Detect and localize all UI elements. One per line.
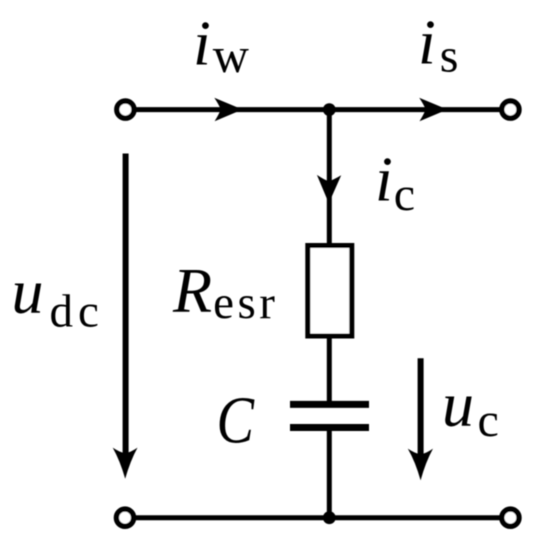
arrowhead current ic xyxy=(317,175,341,203)
voltage arrow uc head xyxy=(408,449,433,481)
arrowhead current is xyxy=(419,98,447,121)
wire capacitor to bottom xyxy=(327,430,332,518)
resistor Resr body xyxy=(308,246,352,337)
svg-text:C: C xyxy=(217,384,256,458)
node junction bottom xyxy=(323,511,336,524)
capacitor C top plate xyxy=(290,401,369,408)
svg-text:uc: uc xyxy=(442,369,499,447)
svg-text:is: is xyxy=(418,7,458,83)
voltage arrow udc shaft xyxy=(123,154,129,463)
terminal top-left xyxy=(117,101,134,118)
wire top horizontal xyxy=(125,107,510,112)
arrowhead current iw xyxy=(214,98,242,121)
wire resistor to capacitor xyxy=(327,336,332,402)
terminal top-right xyxy=(502,101,519,118)
svg-text:iw: iw xyxy=(193,8,249,84)
terminal bottom-left xyxy=(116,509,133,526)
capacitor C bottom plate xyxy=(290,424,369,431)
voltage arrow udc head xyxy=(113,448,138,479)
svg-text:udc: udc xyxy=(12,256,104,338)
node junction top xyxy=(323,103,336,116)
svg-text:Resr: Resr xyxy=(172,255,278,329)
terminal bottom-right xyxy=(502,509,519,526)
wire bottom horizontal xyxy=(125,515,510,520)
wire vertical branch: junction to resistor xyxy=(327,110,332,245)
svg-text:ic: ic xyxy=(375,144,415,221)
voltage arrow uc shaft xyxy=(418,358,424,462)
